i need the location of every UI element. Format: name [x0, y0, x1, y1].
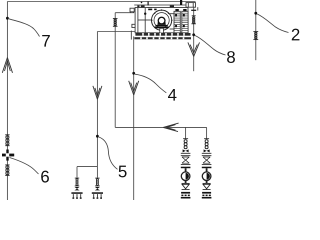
compressor inlet flange box — [130, 8, 134, 13]
compressor beam right end box — [186, 3, 198, 11]
leader line 8 — [195, 36, 226, 56]
bellows joint on pipe 2 — [255, 32, 257, 39]
bellows joint on inlet pipe — [114, 19, 116, 26]
leader line 2 — [257, 14, 288, 33]
bellows joint on discharge pipe — [193, 17, 195, 24]
wire distribution header horizontal — [115, 126, 206, 128]
relief valve assembly A (x=77) — [71, 178, 82, 199]
compressor base left support — [130, 31, 132, 40]
bellows joint (3 circles) lower left pipe — [6, 166, 9, 175]
wire left vertical pipe — [6, 2, 8, 201]
compressor cylinder block 1 (finned) — [174, 9, 180, 33]
label 8 — [227, 51, 235, 63]
wire branch drop D — [206, 127, 208, 138]
compressor cylinder block 2 (finned) — [182, 9, 188, 33]
wire compressor discharge pipe 8 — [193, 7, 195, 71]
leader line 6 — [10, 158, 39, 175]
burner valve train D (x=206.6) — [202, 139, 212, 199]
compressor unit 8 : top beam — [134, 1, 195, 10]
burner valve train C (x=185.6) — [181, 139, 191, 199]
flange bar — [253, 39, 258, 41]
flange bar — [191, 23, 196, 25]
compressor base plate band 2 (feet rail) — [134, 37, 191, 39]
compressor flywheel circle — [151, 9, 172, 33]
wire machine inlet drop pipe — [114, 13, 116, 128]
flow arrow up on left pipe — [2, 58, 12, 73]
flange bar — [113, 18, 118, 20]
wire top header line — [7, 1, 195, 3]
node dot for label 4 — [132, 72, 135, 75]
valve 6 (cross valve) — [2, 150, 14, 161]
wire machine inlet horizontal — [115, 12, 134, 14]
node dot for label 8 — [192, 33, 195, 36]
wire branch drop C — [185, 127, 187, 138]
flange bar — [5, 145, 9, 147]
leader line 5 — [99, 137, 118, 169]
node dot for label 2 — [254, 12, 257, 15]
bold vertical post on compressor — [180, 0, 182, 5]
leader line 4 — [135, 74, 166, 93]
flow arrow down on center pipe — [93, 86, 102, 99]
flow arrow down on discharge pipe — [188, 42, 200, 56]
flange bar — [113, 25, 118, 27]
node dot for label 5 — [96, 135, 99, 138]
flow arrow left on header — [163, 123, 178, 132]
wire bottom-left branch horizontal — [77, 166, 97, 168]
wire main center vertical pipe — [96, 32, 98, 178]
label 4 — [168, 89, 176, 101]
node dot for label 7 — [6, 17, 9, 20]
wire main right vertical pipe 4 — [133, 36, 135, 200]
flange bar — [5, 164, 9, 166]
label 6 — [41, 171, 49, 183]
bellows joint (3 circles) on left pipe — [6, 136, 9, 145]
flange bar — [253, 31, 258, 33]
flange bar — [5, 174, 9, 176]
flange bar — [192, 15, 196, 17]
wire tee horizontal at y31 — [97, 31, 135, 33]
wire bottom-left branch drop — [76, 167, 78, 178]
compressor base plate band 1 — [135, 33, 190, 36]
compressor body — [132, 8, 188, 33]
label 5 — [119, 166, 127, 178]
label 2 — [292, 29, 300, 41]
leader line 7 — [9, 19, 40, 37]
wire right inlet pipe 2 — [255, 0, 257, 60]
flange bar — [5, 134, 9, 136]
flow arrow down on pipe 4 — [129, 81, 139, 95]
relief valve assembly B (x=97.4) — [92, 178, 103, 199]
flange bar — [191, 9, 196, 11]
label 7 — [42, 35, 50, 47]
